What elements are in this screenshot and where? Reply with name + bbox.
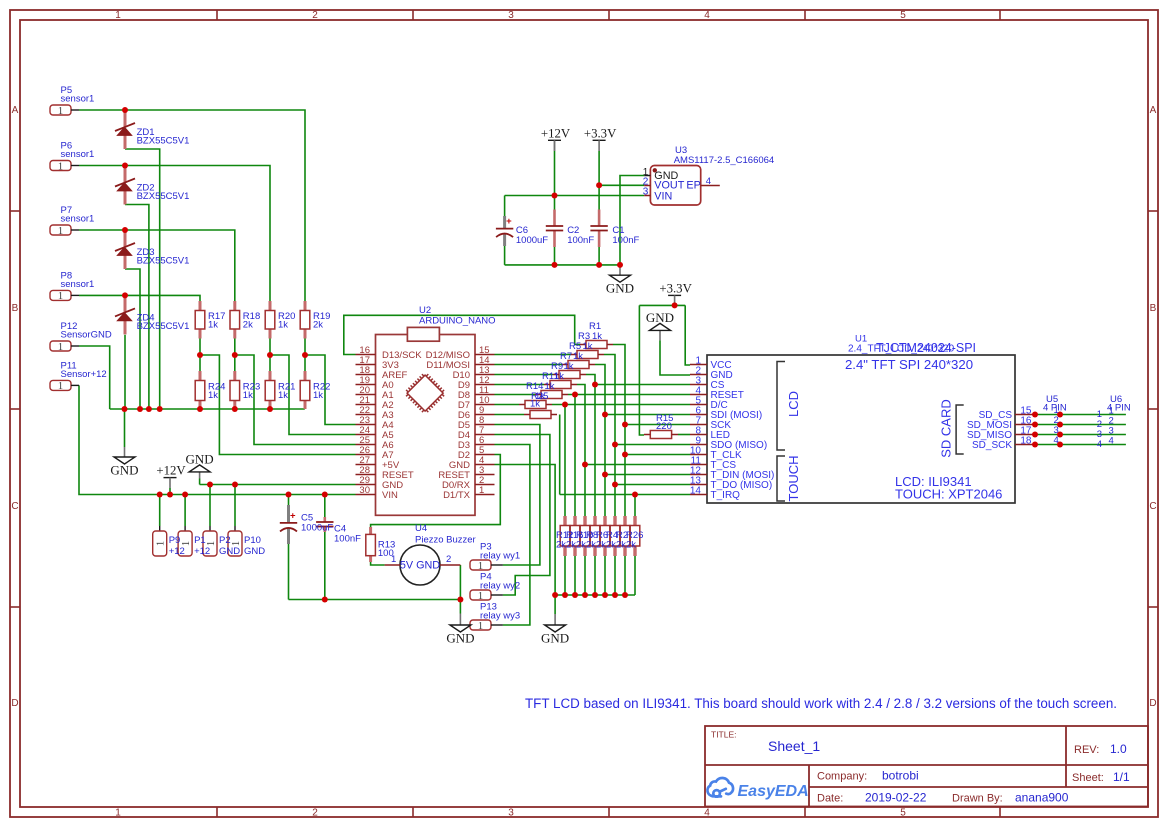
svg-text:D1/TX: D1/TX (443, 490, 471, 501)
svg-text:BZX55C5V1: BZX55C5V1 (137, 256, 190, 267)
svg-text:1000uF: 1000uF (301, 523, 333, 534)
svg-text:4: 4 (1109, 436, 1114, 447)
svg-text:VIN: VIN (382, 490, 398, 501)
svg-text:100nF: 100nF (567, 235, 594, 246)
svg-text:sensor1: sensor1 (61, 149, 95, 160)
svg-text:3: 3 (508, 808, 514, 819)
svg-text:1k: 1k (278, 390, 288, 401)
svg-text:2k: 2k (243, 320, 253, 331)
svg-text:1k: 1k (278, 320, 288, 331)
svg-text:2k: 2k (626, 540, 636, 551)
svg-text:1: 1 (156, 541, 167, 546)
svg-text:2: 2 (446, 554, 451, 565)
svg-text:1: 1 (58, 161, 63, 172)
svg-text:D: D (1149, 698, 1156, 709)
svg-text:C: C (11, 501, 18, 512)
svg-text:U4: U4 (415, 523, 427, 534)
svg-text:SD_SCK: SD_SCK (972, 440, 1012, 451)
svg-text:220: 220 (656, 421, 672, 432)
svg-text:3: 3 (508, 10, 514, 21)
svg-text:14: 14 (690, 486, 702, 497)
svg-text:TOUCH: XPT2046: TOUCH: XPT2046 (895, 487, 1002, 502)
svg-text:TJCTM24024-SPI: TJCTM24024-SPI (876, 341, 976, 355)
svg-text:100nF: 100nF (334, 534, 361, 545)
svg-text:TFT LCD based on ILI9341. This: TFT LCD based on ILI9341. This board sho… (525, 696, 1117, 711)
svg-text:Date:: Date: (817, 793, 843, 805)
svg-text:2k: 2k (586, 540, 596, 551)
svg-text:1k: 1k (592, 331, 602, 342)
svg-text:LCD: LCD (786, 391, 801, 417)
svg-text:B: B (1150, 303, 1157, 314)
svg-text:1: 1 (479, 485, 484, 496)
svg-text:1: 1 (58, 291, 63, 302)
svg-text:1: 1 (58, 381, 63, 392)
svg-text:relay wy2: relay wy2 (480, 581, 520, 592)
svg-text:5V GND: 5V GND (400, 560, 440, 572)
svg-text:4: 4 (706, 176, 711, 187)
svg-text:sensor1: sensor1 (61, 279, 95, 290)
svg-text:5: 5 (900, 10, 906, 21)
svg-text:1: 1 (58, 342, 63, 353)
svg-text:1: 1 (115, 10, 121, 21)
svg-text:AMS1117-2.5_C166064: AMS1117-2.5_C166064 (674, 155, 775, 166)
svg-text:botrobi: botrobi (882, 769, 919, 783)
svg-text:1.0: 1.0 (1110, 742, 1127, 756)
svg-text:sensor1: sensor1 (61, 214, 95, 225)
svg-text:B: B (12, 303, 19, 314)
svg-text:BZX55C5V1: BZX55C5V1 (137, 321, 190, 332)
svg-text:4: 4 (704, 10, 710, 21)
svg-text:relay wy1: relay wy1 (480, 551, 520, 562)
svg-text:1k: 1k (208, 320, 218, 331)
svg-text:ARDUINO_NANO: ARDUINO_NANO (419, 316, 496, 327)
svg-text:GND: GND (646, 310, 674, 325)
svg-text:1k: 1k (583, 341, 593, 352)
svg-text:U2: U2 (419, 305, 431, 316)
svg-text:1: 1 (478, 621, 483, 632)
svg-text:GND: GND (219, 546, 240, 557)
svg-text:+3.3V: +3.3V (584, 126, 617, 140)
svg-text:1k: 1k (313, 390, 323, 401)
svg-text:1/1: 1/1 (1113, 770, 1130, 784)
svg-text:TITLE:: TITLE: (711, 730, 737, 740)
svg-text:100nF: 100nF (612, 235, 639, 246)
svg-text:3: 3 (643, 187, 649, 198)
svg-text:1k: 1k (564, 361, 574, 372)
svg-text:1: 1 (478, 591, 483, 602)
svg-text:Sensor+12: Sensor+12 (61, 369, 107, 380)
svg-text:1: 1 (58, 226, 63, 237)
svg-text:Sheet_1: Sheet_1 (768, 738, 820, 754)
svg-text:2k: 2k (576, 540, 586, 551)
svg-text:+12: +12 (169, 546, 185, 557)
svg-text:P10: P10 (244, 535, 261, 546)
svg-text:GND: GND (186, 451, 214, 466)
svg-text:2k: 2k (566, 540, 576, 551)
svg-text:GND: GND (110, 463, 138, 478)
svg-text:Sheet:: Sheet: (1072, 772, 1104, 784)
svg-text:D: D (11, 698, 18, 709)
svg-text:VIN: VIN (654, 190, 672, 202)
svg-text:T_IRQ: T_IRQ (711, 490, 741, 501)
svg-text:1: 1 (115, 808, 121, 819)
svg-text:BZX55C5V1: BZX55C5V1 (137, 136, 190, 147)
svg-text:GND: GND (244, 546, 265, 557)
svg-text:P2: P2 (219, 535, 231, 546)
svg-text:1k: 1k (573, 351, 583, 362)
svg-text:30: 30 (359, 485, 370, 496)
svg-text:1000uF: 1000uF (516, 235, 548, 246)
svg-text:Company:: Company: (817, 771, 867, 783)
svg-text:1k: 1k (243, 390, 253, 401)
svg-text:A: A (12, 105, 19, 116)
svg-text:EP: EP (686, 180, 700, 192)
svg-text:A: A (1150, 105, 1157, 116)
svg-text:BZX55C5V1: BZX55C5V1 (137, 191, 190, 202)
svg-text:4: 4 (1054, 435, 1059, 446)
svg-text:P1: P1 (194, 535, 206, 546)
svg-text:4: 4 (704, 808, 710, 819)
svg-text:2k: 2k (556, 540, 566, 551)
svg-text:Drawn By:: Drawn By: (952, 793, 1003, 805)
svg-text:2k: 2k (606, 540, 616, 551)
svg-text:+12: +12 (194, 546, 210, 557)
svg-text:1k: 1k (208, 390, 218, 401)
svg-text:GND: GND (541, 631, 569, 646)
svg-text:4: 4 (1097, 439, 1102, 450)
svg-text:+12V: +12V (156, 464, 186, 478)
svg-text:GND: GND (606, 281, 634, 296)
svg-text:+12V: +12V (541, 126, 571, 140)
svg-text:+: + (506, 216, 512, 227)
svg-text:C: C (1149, 501, 1156, 512)
svg-text:Piezzo Buzzer: Piezzo Buzzer (415, 535, 476, 546)
svg-text:GND: GND (446, 631, 474, 646)
svg-text:anana900: anana900 (1015, 791, 1069, 805)
svg-text:SD CARD: SD CARD (939, 399, 954, 458)
svg-text:2k: 2k (616, 540, 626, 551)
svg-text:1: 1 (391, 554, 396, 565)
svg-text:+3.3V: +3.3V (659, 281, 692, 295)
svg-text:EasyEDA: EasyEDA (738, 783, 809, 800)
svg-text:2k: 2k (596, 540, 606, 551)
svg-text:relay wy3: relay wy3 (480, 611, 520, 622)
svg-text:sensor1: sensor1 (61, 94, 95, 105)
svg-text:2: 2 (312, 10, 318, 21)
svg-text:1: 1 (58, 106, 63, 117)
svg-text:+: + (290, 510, 296, 521)
svg-text:1k: 1k (530, 399, 540, 410)
svg-text:18: 18 (1020, 436, 1032, 447)
svg-text:TOUCH: TOUCH (786, 456, 801, 502)
svg-text:P9: P9 (169, 535, 181, 546)
svg-text:2019-02-22: 2019-02-22 (865, 791, 927, 805)
svg-text:2k: 2k (313, 320, 323, 331)
svg-text:2.4" TFT SPI 240*320: 2.4" TFT SPI 240*320 (845, 357, 973, 372)
svg-text:2: 2 (312, 808, 318, 819)
svg-text:SensorGND: SensorGND (61, 330, 112, 341)
svg-text:REV:: REV: (1074, 744, 1099, 756)
svg-text:1: 1 (478, 561, 483, 572)
svg-text:5: 5 (900, 808, 906, 819)
